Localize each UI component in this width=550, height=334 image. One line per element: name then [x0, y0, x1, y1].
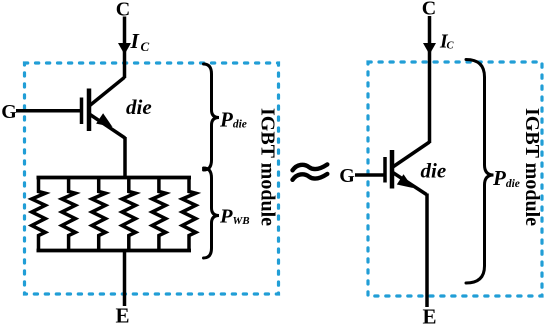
svg-text:IGBT module: IGBT module — [257, 108, 279, 226]
brace P_WB (left) — [204, 168, 220, 258]
svg-text:C: C — [447, 41, 455, 52]
resistor R3 (wire bond) — [92, 177, 106, 251]
current arrow I_C (right) — [423, 43, 436, 55]
svg-text:die: die — [126, 95, 152, 119]
svg-text:C: C — [141, 39, 150, 54]
transistor Q1 gate bar (left die) — [80, 98, 84, 125]
emitter arrow (left) — [96, 113, 112, 127]
wire collector vertical (left) — [123, 17, 127, 79]
wire collector vertical (right) — [428, 16, 432, 143]
transistor Q2 gate bar (right die) — [383, 157, 387, 183]
svg-text:I: I — [130, 29, 140, 53]
resistor R2 (wire bond) — [62, 177, 76, 251]
svg-text:E: E — [115, 304, 129, 328]
svg-text:G: G — [339, 165, 355, 187]
IGBT module dashed boundary (left) — [25, 63, 279, 294]
transistor Q1 body bar (left die) — [87, 89, 92, 132]
wire bond network bottom bus — [37, 249, 192, 253]
wire collector diagonal (left) — [89, 77, 125, 106]
svg-text:E: E — [422, 305, 436, 329]
wire collector diagonal (right) — [392, 142, 430, 168]
wire emitter diagonal (right) — [392, 172, 427, 195]
wire emitter to E (left) — [123, 250, 127, 306]
resistor R1 (wire bond) — [32, 177, 46, 251]
emitter arrow (right) — [397, 174, 413, 188]
resistor R5 (wire bond) — [152, 177, 166, 251]
wire bond network top bus — [37, 176, 192, 180]
current arrow I_C (left) — [118, 43, 131, 55]
svg-text:G: G — [1, 101, 17, 123]
wire gate (right) — [355, 173, 384, 177]
wire emitter diagonal (left) — [89, 114, 126, 139]
wire emitter to E (right) — [425, 194, 429, 308]
resistor R4 (wire bond) — [122, 177, 136, 251]
brace P_die (right) — [466, 60, 494, 284]
brace P_die (left) — [204, 64, 220, 170]
wire gate (left) — [16, 109, 80, 113]
svg-text:IGBT module: IGBT module — [521, 108, 543, 226]
resistor R6 (wire bond) — [182, 177, 196, 251]
svg-text:die: die — [421, 158, 447, 182]
transistor Q2 body bar (right die) — [390, 150, 395, 189]
IGBT module dashed boundary (right) — [368, 62, 542, 296]
approx-equal symbol — [293, 164, 328, 170]
wire emitter vertical (left) — [123, 137, 127, 179]
